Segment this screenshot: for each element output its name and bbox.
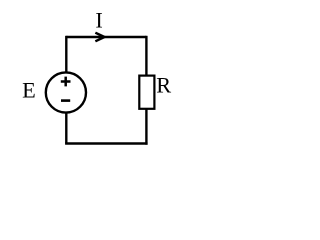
svg-text:E: E [22,78,36,103]
svg-text:R: R [156,73,171,98]
voltage source U1 circle [46,72,86,112]
current arrow head [95,32,108,43]
resistor R1 body [139,76,154,109]
wire left lower segment [65,113,67,144]
svg-text:I: I [95,8,102,33]
wire right lower segment [145,109,147,145]
wire bottom [65,142,148,144]
minus sign (source polarity) [61,99,70,102]
wire top (node from source top to resistor top) [66,36,146,38]
plus sign (source polarity) [61,77,71,87]
wire left upper segment [65,36,67,73]
wire right upper segment [145,36,147,76]
